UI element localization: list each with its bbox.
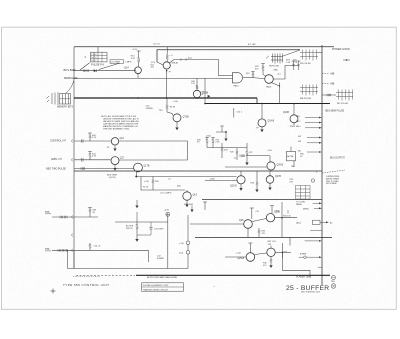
wire between Q15 and Q16 — [252, 219, 266, 222]
resistor R18 on x=167 column — [166, 105, 168, 109]
svg-text:Q29-B: Q29-B — [238, 258, 245, 260]
svg-text:C21 .01MFD: C21 .01MFD — [160, 193, 172, 195]
svg-text:4.7K: 4.7K — [92, 156, 97, 158]
svg-text:(+10): (+10) — [179, 243, 184, 245]
wire Q3 collector up — [196, 78, 198, 90]
svg-text:(A15): (A15) — [296, 222, 301, 225]
svg-text:SW: SW — [298, 136, 301, 138]
wire T bar above Q16 — [271, 206, 273, 214]
svg-text:+10V: +10V — [132, 49, 138, 51]
transistor Q4 — [265, 75, 274, 84]
wire y=222 — [115, 221, 168, 223]
svg-text:(+10): (+10) — [173, 101, 178, 103]
node junction dot — [135, 176, 137, 178]
wire Q10 collector up to bus — [261, 104, 263, 119]
svg-text:Q25-B: Q25-B — [230, 186, 237, 188]
wire row1 y=141 — [74, 140, 111, 142]
resistor column x=237 — [236, 148, 238, 160]
svg-text:R37: R37 — [284, 252, 287, 254]
wire Q18 right + down — [275, 251, 291, 253]
svg-text:BUS BITS: BUS BITS — [64, 68, 76, 72]
wire Q2 base left — [157, 62, 163, 65]
svg-text:B.MEM: B.MEM — [300, 253, 307, 255]
resistor inline TP5 row — [60, 216, 67, 219]
wire bus y=275 dashed left part — [76, 274, 135, 276]
wire arrow row y=203.3 — [313, 202, 320, 204]
svg-text:Q17B: Q17B — [144, 166, 150, 168]
pulse transformer block E — [336, 90, 353, 101]
wire sub loop below — [141, 177, 185, 191]
wire Q9 emitter down + ground — [186, 200, 188, 204]
wire gate input risers — [218, 60, 220, 76]
resistor column x=222 — [221, 143, 223, 158]
wire below box U2 — [293, 161, 295, 166]
transistor Q9 — [183, 192, 191, 200]
wire BUS BITS row y=70.7 — [73, 70, 135, 72]
wire arrow row y=267.2 — [318, 266, 322, 268]
wire Q6 collector right to riser — [119, 140, 188, 142]
svg-text:DIGITAL EQUIPMENT CORP: DIGITAL EQUIPMENT CORP — [143, 284, 169, 287]
svg-text:4.7K: 4.7K — [131, 58, 136, 60]
transistor Q7 — [111, 157, 119, 165]
svg-text:(240): (240) — [206, 136, 211, 138]
wire L x=282.4 lower — [282, 243, 310, 278]
svg-text:QT1B: QT1B — [183, 115, 190, 118]
transistor Q5 — [173, 114, 181, 122]
resistor R21 above gate output — [251, 72, 255, 78]
resistor R16 above Q2 — [166, 47, 168, 62]
svg-text:(DLYD): (DLYD) — [109, 177, 116, 179]
jumper note block — [326, 176, 340, 185]
svg-text:(2.5): (2.5) — [151, 62, 155, 64]
resistor R15 above Q1 — [137, 51, 141, 67]
svg-text:TP6: TP6 — [45, 248, 50, 251]
svg-text:POWER GND: POWER GND — [296, 276, 311, 279]
wire riser x=282 down to bus — [281, 202, 283, 237]
svg-text:AMPL X P: AMPL X P — [51, 158, 62, 161]
resistor R22 above Q4 — [261, 64, 266, 77]
svg-text:APPROVED NATIONAL HDWE: APPROVED NATIONAL HDWE — [147, 276, 178, 279]
pulse transformer block D — [300, 85, 318, 96]
resistor R25 vertical — [297, 61, 301, 70]
svg-text:(-15): (-15) — [179, 252, 184, 254]
wire riser x=290 — [289, 237, 291, 245]
transistor Q14b — [237, 176, 245, 184]
transistor Q2 — [163, 62, 170, 69]
wire arrow row y=208.3 — [314, 207, 320, 209]
wire Q11 emitter down — [293, 123, 295, 127]
connector arrow rows on right rail — [305, 117, 322, 153]
wire top bus B y=50.5 — [157, 50, 300, 62]
svg-text:MB: MB — [331, 72, 335, 75]
svg-text:R35 1.5K: R35 1.5K — [268, 241, 277, 243]
svg-text:C20 .1: C20 .1 — [237, 112, 244, 114]
wire Q18 emitter down + resistor + ground — [269, 257, 272, 269]
resistor column x=247 + ground — [245, 143, 248, 165]
wire top bus A y=47.3 — [74, 46, 334, 48]
capacitor inline row2 — [81, 158, 83, 161]
wire into Q14b from left y=180.5 — [205, 180, 237, 182]
pulse transformer block B — [271, 54, 283, 64]
svg-text:PANEL: PANEL — [296, 203, 302, 206]
svg-text:Q27B: Q27B — [275, 176, 281, 178]
svg-text:~: ~ — [213, 285, 215, 289]
svg-text:(+10): (+10) — [144, 181, 149, 183]
wire riser x=188 between rows — [187, 141, 189, 160]
wire left L to bottom bus — [67, 250, 69, 268]
relay box row y=222.3 — [313, 220, 321, 224]
svg-text:POWER GOOD: POWER GOOD — [332, 48, 350, 51]
wire bus y=171 — [74, 170, 322, 172]
wire block C to rail — [318, 52, 322, 54]
transistor Q15 — [244, 220, 253, 229]
resistor R24 vertical — [292, 61, 296, 70]
wire Q7 emitter down + ground — [114, 165, 116, 168]
svg-text:TP5: TP5 — [45, 211, 50, 214]
svg-text:(PA-B): (PA-B) — [172, 61, 179, 64]
svg-text:TRANSISTORIZED CIRCUIT: TRANSISTORIZED CIRCUIT — [143, 288, 169, 291]
wire curve from connector to left rail — [66, 81, 74, 94]
wire Q10 emitter down + arrow — [261, 127, 263, 130]
svg-text:BUS OUTPUT: BUS OUTPUT — [330, 157, 345, 159]
transistor Q11 — [290, 115, 298, 123]
svg-text:C23 1MFD: C23 1MFD — [154, 229, 164, 231]
svg-text:(D1): (D1) — [188, 58, 192, 60]
resistor column x=259 below — [258, 228, 260, 237]
svg-text:9 0 1 2: 9 0 1 2 — [91, 60, 96, 62]
wire bus y=275.3 — [136, 274, 330, 276]
svg-text:.01MFD: .01MFD — [146, 108, 154, 110]
wire arrow row y=230.6 — [310, 230, 322, 232]
wire between Q17 and Q18 — [255, 253, 267, 255]
transistor Q3 — [193, 90, 200, 97]
pulse transformer block C (right rail top) — [300, 50, 318, 61]
capacitor box C1 with label — [110, 60, 124, 64]
wire bus y=199.5 — [202, 199, 322, 201]
svg-text:Q24-B: Q24-B — [268, 121, 275, 123]
svg-text:THE UNIT ASSEMBLY DWG.: THE UNIT ASSEMBLY DWG. — [103, 127, 130, 130]
tiny dashes above title — [73, 276, 100, 278]
wire Q12 base feed y=167 — [225, 166, 267, 168]
svg-text:(243): (243) — [210, 179, 215, 181]
transistor Q6 — [111, 138, 118, 145]
transistor Q10 — [258, 119, 266, 127]
diode inline at x=95 — [94, 69, 97, 72]
plus mark — [51, 289, 56, 294]
svg-text:Q24B: Q24B — [283, 112, 289, 114]
svg-text:+2.5: +2.5 — [275, 211, 279, 213]
wire bus to R28 — [256, 171, 258, 180]
svg-text:Q28: Q28 — [239, 220, 244, 222]
resistor inline row3 — [81, 167, 85, 170]
title block table — [142, 283, 184, 291]
svg-text:6.8MFD: 6.8MFD — [157, 258, 165, 260]
ground arrow above x=137 — [136, 200, 138, 206]
resistor R44 column x=137 — [136, 222, 138, 235]
wire step between buses x=257 — [256, 98, 258, 104]
svg-text:C/D: C/D — [256, 211, 260, 213]
resistor R41 column row1 — [88, 133, 92, 141]
test point circle 2 — [186, 251, 190, 255]
wire diagonal into block A — [80, 63, 90, 70]
svg-text:Q26-B: Q26-B — [277, 164, 284, 166]
wire riser x=233.8 above — [233, 108, 235, 118]
transistor Q16 — [266, 214, 274, 222]
svg-text:+10V: +10V — [164, 209, 170, 211]
wire left rail x=74 — [73, 47, 75, 269]
svg-text:W/O B MEM: W/O B MEM — [326, 183, 337, 185]
small circle terminal near rail — [311, 179, 314, 182]
wire Q2 emitter down to y=78 — [166, 69, 168, 98]
resistor forest column x=213 — [211, 138, 215, 148]
node junction dot x=226 — [225, 131, 227, 133]
svg-text:R34 1.5K: R34 1.5K — [283, 216, 292, 218]
svg-text:1 2 3 4: 1 2 3 4 — [91, 54, 96, 56]
svg-text:TAB: TAB — [291, 165, 295, 168]
wire arrow row y=240.9 — [305, 240, 320, 242]
resistor column x=90 above TP6 row — [89, 243, 91, 250]
svg-text:SW: SW — [298, 141, 301, 143]
wire riser x=148.4 down from TP6 row — [147, 250, 149, 262]
svg-text:C4: C4 — [168, 179, 170, 181]
svg-text:Q19: Q19 — [193, 195, 198, 197]
svg-text:CONTROL X P: CONTROL X P — [50, 139, 67, 142]
svg-text:5 6 7 8: 5 6 7 8 — [91, 57, 96, 59]
wire Q5 emitter + ground — [176, 122, 178, 128]
svg-text:PULSE P.A.: PULSE P.A. — [91, 63, 105, 67]
resistor inline on bus-bits wire — [84, 69, 89, 72]
svg-text:R1: R1 — [107, 147, 109, 149]
transistor Q12 — [267, 162, 275, 170]
wire row3 y=168.5 — [74, 168, 134, 170]
junction dots on bus y=98 — [137, 97, 139, 99]
resistor R42 column row2 — [88, 152, 92, 160]
wire Q15 emitter down to bus — [247, 228, 249, 237]
svg-text:MB 2: MB 2 — [296, 121, 300, 123]
wire into Q12 — [269, 156, 271, 162]
wire Q9 collector up — [186, 190, 188, 192]
wire into Q5 base — [167, 112, 173, 116]
svg-text:R45 2K: R45 2K — [126, 228, 133, 230]
svg-text:PWR GND: PWR GND — [184, 204, 194, 206]
svg-text:(PA): (PA) — [274, 69, 278, 72]
wire Q4 emitter down to bus y=103.5 — [279, 83, 281, 104]
wire riser x=205 — [204, 78, 206, 104]
wire bus to Q13 collector — [269, 171, 271, 176]
svg-text:1 MFD: 1 MFD — [125, 62, 132, 64]
svg-text:MB PULSE: MB PULSE — [300, 98, 312, 100]
resistor column x=257 with ground — [255, 180, 258, 192]
wire T stub above junction — [221, 126, 223, 132]
wire TP6 row y=250.3 — [52, 249, 148, 251]
svg-text:(+10): (+10) — [236, 253, 241, 255]
svg-text:R17B: R17B — [170, 107, 176, 109]
svg-text:C24 .01: C24 .01 — [94, 246, 102, 248]
resistor R20 — [152, 177, 154, 191]
transistor Q18 — [267, 248, 275, 256]
wire riser x=288 from 213 to 237 — [287, 210, 289, 214]
resistor forest column x=207 — [205, 138, 209, 148]
svg-text:B.T. 2MC: B.T. 2MC — [248, 44, 256, 46]
wire bottom horizontal y=268.5 — [68, 268, 189, 270]
wire ACTAL box top stub — [290, 147, 292, 152]
svg-text:Q17: Q17 — [120, 157, 125, 159]
power terminal +10V circle — [166, 212, 170, 216]
wire riser x=188 with test circles — [187, 215, 189, 269]
svg-text:2.2K: 2.2K — [216, 142, 221, 144]
wire row2 y=159.8 — [74, 159, 111, 161]
revision circle stack — [332, 276, 336, 280]
wire diagonal from bus-bits to block area — [99, 63, 120, 70]
svg-text:PA15: PA15 — [234, 84, 240, 87]
wire dash with dot — [343, 59, 350, 61]
svg-text:CD TRAP: CD TRAP — [111, 61, 121, 64]
svg-text:DEC FORM NO 25 B: DEC FORM NO 25 B — [301, 292, 321, 294]
svg-text:NEG TWO PULSE: NEG TWO PULSE — [46, 168, 66, 171]
svg-text:MB 1: MB 1 — [296, 116, 300, 118]
wire hop arcs on left rail — [71, 140, 74, 143]
transistor Q8 — [134, 163, 143, 172]
svg-text:C14 .01: C14 .01 — [153, 44, 160, 46]
svg-text:ACTAL: ACTAL — [287, 155, 294, 158]
svg-text:1.5K: 1.5K — [286, 62, 291, 64]
resistor column x=90 above TP5 row — [88, 208, 92, 218]
wire into Q15 base y=224 — [190, 223, 244, 225]
vertical T above Q15 area x=205 — [204, 202, 206, 210]
svg-text:+10V: +10V — [267, 150, 272, 152]
wire gate output — [243, 77, 253, 79]
wire Q16 collector right + junction — [275, 217, 297, 219]
wire TP5 row y=217 — [52, 216, 98, 218]
svg-text:R2 1K: R2 1K — [143, 187, 149, 189]
wire bus y=98 — [74, 97, 257, 99]
wire Q11 collector up to bus — [293, 104, 295, 115]
wire y=176.5 — [136, 176, 236, 178]
svg-text:NEG MEM PULSE: NEG MEM PULSE — [325, 111, 345, 113]
svg-text:PA20: PA20 — [266, 86, 272, 89]
wire riser x=168 down — [167, 222, 169, 269]
wire Q4 collector loop right — [273, 66, 298, 80]
wire Q7 collector right — [119, 159, 188, 161]
wire + ground below x=137 — [137, 234, 151, 236]
wire Q2 collector to riser — [169, 60, 218, 63]
capacitor C22 — [150, 227, 153, 229]
wire bus y=103.5 — [205, 103, 330, 105]
resistor value table grid — [296, 186, 311, 200]
capacitor inline row1 — [81, 139, 83, 142]
wire Q17 top riser — [249, 243, 251, 253]
wire Q6 emitter down + ground — [114, 145, 116, 149]
svg-text:MB 3: MB 3 — [296, 126, 300, 128]
wire Q1 emitter down to bus y=78 — [137, 74, 139, 79]
terminal strip block A top-left — [91, 47, 108, 62]
wire right rail x=322 — [321, 45, 323, 285]
wire y=147.5 short bus — [207, 147, 247, 149]
resistor inline TP6 row — [58, 249, 68, 252]
component box U2 — [287, 151, 296, 160]
wire bus y=237.4 — [195, 236, 332, 238]
wire Q3 emitter to bus y=98 — [196, 97, 198, 99]
svg-text:4.7K: 4.7K — [92, 137, 97, 139]
wire bus to Q14b collector — [240, 171, 242, 176]
svg-text:MB: MB — [331, 83, 335, 86]
svg-text:PA PULSE: PA PULSE — [269, 65, 280, 68]
wire into Q17 base — [225, 256, 246, 258]
svg-text:MEMCLRD: MEMCLRD — [64, 76, 78, 80]
svg-text:MEMORY BITS: MEMORY BITS — [57, 107, 73, 109]
wire Q18 collector up — [270, 246, 272, 248]
wire Q14b emitter down — [240, 184, 242, 188]
wire x=137 stub — [136, 212, 138, 222]
scan speckle texture — [0, 0, 1, 1]
test point circle 1 — [186, 241, 190, 245]
wire to Q4 base — [253, 77, 265, 80]
wire Q14b ground arrow — [239, 188, 242, 191]
resistor left of block E — [322, 94, 336, 96]
connector J1 bottom-left cluster — [47, 92, 71, 105]
svg-text:PB PULSE: PB PULSE — [300, 63, 311, 65]
labels for arrow rows — [296, 116, 301, 153]
wire Q13 emitter down + ground — [269, 183, 271, 187]
wire T bar above Q10 — [251, 208, 253, 219]
transistor Q13 — [266, 176, 274, 184]
wire Q8 emitter to junction — [135, 172, 137, 177]
svg-text:RD PULSE: RD PULSE — [337, 103, 348, 105]
ground arrow mid — [191, 206, 193, 210]
svg-text:TYPE 550 CONTROL UNIT: TYPE 550 CONTROL UNIT — [63, 283, 109, 287]
AND gate U1 — [233, 73, 243, 83]
wire row y=257.2 with terminal circle — [299, 256, 304, 258]
svg-text:Q14: Q14 — [124, 66, 129, 69]
wire MEMCLRD row y=78 — [73, 77, 233, 79]
svg-text:(MEM): (MEM) — [303, 208, 309, 210]
transistor Q17 — [246, 253, 255, 262]
wire arrow below junction — [225, 132, 227, 139]
svg-text:Q16: Q16 — [120, 138, 125, 140]
svg-text:(B4): (B4) — [177, 186, 181, 188]
note text block — [101, 115, 140, 131]
transistor Q1 — [135, 67, 142, 74]
